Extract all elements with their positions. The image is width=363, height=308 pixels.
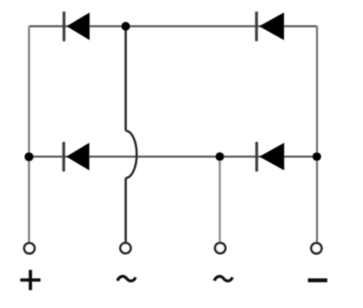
terminal circle - (DC negative) [311,243,321,253]
label + (plus sign) [20,270,40,290]
terminal circle ~ (AC 2) [215,243,225,253]
wire: right vertical (top-right corner to - terminal) [316,26,318,242]
wire: hop arc over middle bus [126,131,137,178]
label ~ (AC 2 tilde) [214,276,232,281]
label ~ (AC 1 tilde) [117,276,135,281]
node D (junction dot, middle bus at right vertical) [313,152,322,161]
diode D3 (bottom-left, cathode bar left, triangle points left) [62,142,89,172]
terminal circle + (DC positive) [24,243,34,253]
node A (junction dot on top bus) [121,22,130,31]
node B (junction dot, middle bus at left vertical) [25,152,34,161]
wire: center tap vertical lower segment (hop down to ~ terminal) [125,178,127,242]
wire: left vertical (top-left corner to + terminal) [28,26,30,242]
diode D4 (bottom-right, cathode bar left, triangle points left) [255,142,284,172]
label - (minus sign) [308,278,327,282]
wire: center tap vertical upper segment (node A down to hop) [125,26,127,131]
wire: AC2 tap vertical (node C down to ~ terminal) [219,157,221,243]
wire: top bus (left corner to right corner) [29,25,317,27]
terminal circle ~ (AC 1) [120,243,130,253]
wire: middle bus (left vertical to right vertical) [29,156,317,158]
diode D1 (top-left, cathode bar left, triangle points left) [63,12,90,42]
node C (junction dot, middle bus at AC2 tap) [216,152,225,161]
diode D2 (top-right, cathode bar left, triangle points left) [255,12,284,42]
